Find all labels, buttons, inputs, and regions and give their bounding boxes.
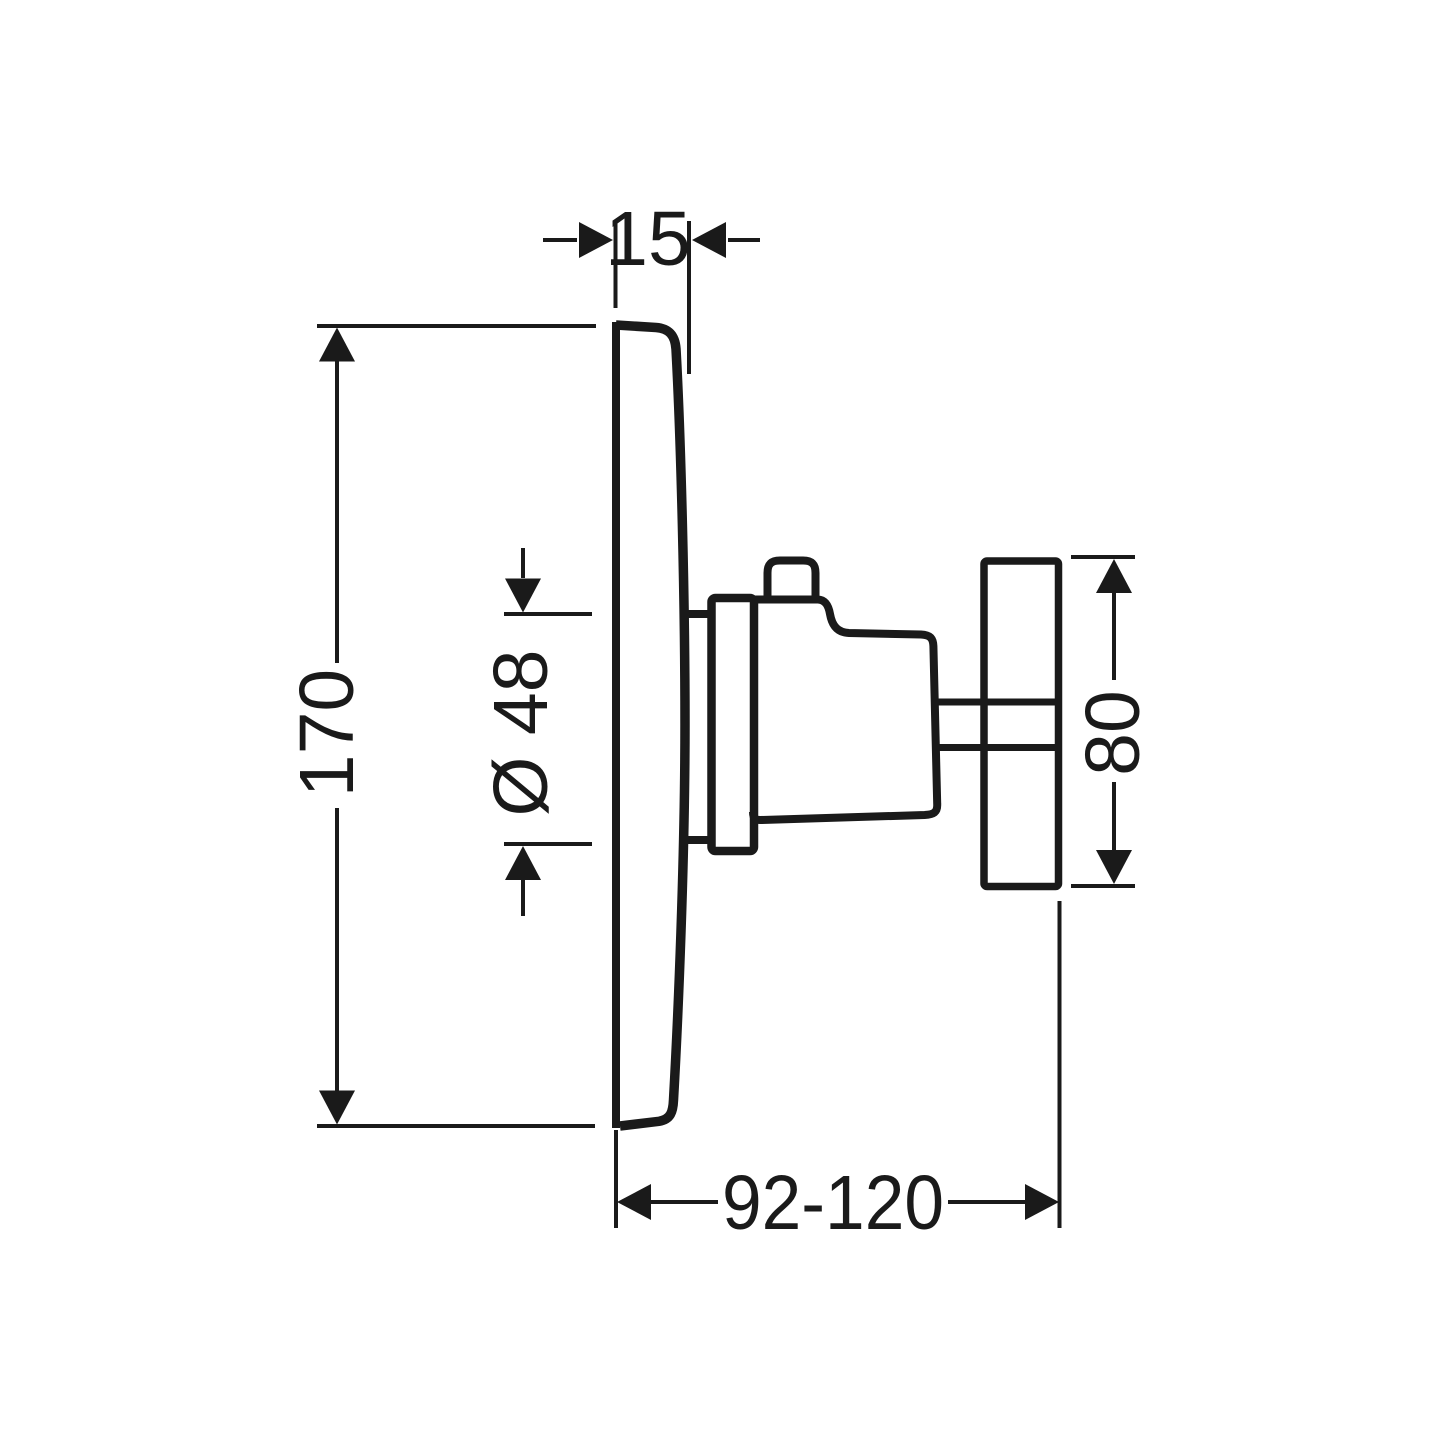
dim Ø48: bottom extension line [504,842,592,846]
svg-text:80: 80 [1070,690,1156,776]
dim 80: top extension tick [1071,555,1135,559]
dim 80: top arrowhead [1096,559,1132,593]
sleeve bottom silhouette line [680,836,715,844]
dim 80: bottom arrowhead [1096,850,1132,884]
svg-text:92-120: 92-120 [722,1160,944,1246]
dim 15: right extension line [687,221,691,374]
dim 170: bottom arrowhead [319,1091,355,1125]
dim 170: dimension line lower segment [335,808,339,1092]
dim 92-120: dimension line left segment [650,1200,718,1204]
dim 92-120: left extension line [614,1130,618,1228]
knob on body top [768,561,816,600]
stem upper line [934,699,1058,706]
dim 80: dimension line upper segment [1112,592,1116,680]
dim 80: dimension line lower segment [1112,782,1116,851]
dim Ø48: bottom arrowhead [505,846,541,880]
svg-text:Ø 48: Ø 48 [478,650,564,817]
flange rectangle [712,598,755,851]
dim 92-120: right extension line [1058,901,1062,1228]
escutcheon plate outline [616,325,685,1126]
dim 170: top arrowhead [319,328,355,362]
dim 92-120: right arrowhead [1025,1184,1059,1220]
dim 15: left tail line [543,238,577,242]
dim 170: top extension line [317,324,596,328]
sleeve top silhouette line [680,610,715,618]
stem lower line [934,744,1058,751]
plate back edge [612,322,620,1128]
dim 92-120: dimension line right segment [948,1200,1026,1204]
svg-text:15: 15 [605,196,691,282]
dim Ø48: top extension line [504,612,592,616]
dim 92-120: left arrowhead [617,1184,651,1220]
dim 15: right tail line [728,238,760,242]
dim Ø48: lower leader line [521,880,525,916]
dim 80: bottom extension tick [1071,884,1135,888]
dim 15: left extension line [614,222,618,308]
dim 170: bottom extension line [317,1124,595,1128]
dim 15: left arrowhead [579,222,613,258]
dim Ø48: top arrowhead [505,579,541,613]
svg-text:170: 170 [284,669,370,797]
dim 15: right arrowhead [692,222,726,258]
valve body outline [752,600,937,821]
dim 170: dimension line upper segment [335,360,339,663]
cross handle bar [984,561,1059,887]
dim Ø48: upper leader line [521,548,525,578]
